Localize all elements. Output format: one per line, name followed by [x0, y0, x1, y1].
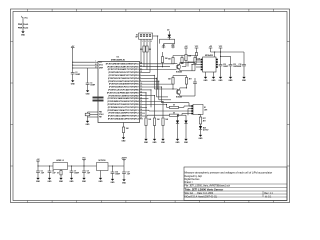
- svg-text:PWR_FLAG: PWR_FLAG: [18, 23, 29, 26]
- svg-text:(PCINT20/XCK/T0/ADC06/T0/T0)PD: (PCINT20/XCK/T0/ADC06/T0/T0)PD4: [108, 77, 139, 80]
- svg-text:100NF: 100NF: [75, 74, 80, 76]
- wire K1 pin3: [188, 108, 192, 110]
- svg-text:.1UF: .1UF: [87, 172, 90, 174]
- svg-text:21: 21: [95, 67, 97, 69]
- svg-text:C16: C16: [115, 172, 118, 174]
- svg-text:K1: K1: [204, 107, 206, 109]
- vertical resistor R15: [145, 117, 147, 119]
- svg-text:30: 30: [140, 65, 142, 67]
- svg-text:20: 20: [95, 64, 97, 66]
- svg-text:C15: C15: [238, 64, 241, 66]
- svg-text:(PCINT19/OC2B/INT1/XT/T0/T0)PD: (PCINT19/OC2B/INT1/XT/T0/T0)PD3: [109, 75, 139, 77]
- svg-text:100NF: 100NF: [90, 84, 95, 86]
- capacitor C6: [71, 165, 72, 166]
- wire VCC rail: [72, 48, 74, 73]
- resistor R19 under U2: [60, 170, 62, 171]
- svg-text:PWR_FLAG: PWR_FLAG: [18, 27, 29, 30]
- resistor R6: [172, 58, 174, 64]
- svg-text:R17: R17: [203, 118, 206, 120]
- svg-text:(PCINT9/ADC1/SDA/PTC1/T0/T0)PC: (PCINT9/ADC1/SDA/PTC1/T0/T0)PC1: [108, 109, 139, 112]
- zener D5: [200, 124, 202, 126]
- bus wires MCU lower pins: [143, 74, 154, 76]
- capacitor C7: [83, 165, 84, 166]
- svg-text:25: 25: [140, 112, 142, 114]
- diode D3: [177, 115, 179, 120]
- svg-text:C7: C7: [74, 171, 76, 173]
- svg-text:(PCINT2/SS/OC1B/INT02/T0/T0)PB: (PCINT2/SS/OC1B/INT02/T0/T0)PB2: [109, 95, 139, 97]
- svg-text:15: 15: [140, 97, 142, 99]
- capacitor C17: [123, 166, 125, 172]
- resistor R9: [172, 78, 174, 85]
- IC U3 reference: [97, 163, 109, 171]
- wire IC1 bottom: [123, 123, 125, 128]
- svg-text:C3: C3: [90, 83, 92, 85]
- wire AVCC to IC1: [73, 64, 95, 66]
- resistor R2 220: [143, 46, 145, 52]
- svg-text:.1UF: .1UF: [52, 172, 55, 174]
- title block: [184, 167, 287, 201]
- resistor R5 10K: [161, 57, 163, 63]
- svg-text:(PCINT5/SCK/TCK/ADC05/T0/T0)PB: (PCINT5/SCK/TCK/ADC05/T0/T0)PB5: [107, 103, 138, 106]
- wire K1 bottom: [198, 114, 201, 116]
- svg-text:MCP9700: MCP9700: [98, 160, 105, 162]
- IC IC1 body: [98, 62, 140, 123]
- vertical resistor R16: [153, 118, 155, 126]
- ground under C3: [87, 89, 89, 90]
- wires to bottom cluster: [157, 96, 169, 98]
- svg-text:KiCad E.D.A. kicad (2007-01-1: KiCad E.D.A. kicad (2007-01-11): [185, 195, 218, 198]
- wire ISP right: [157, 66, 158, 67]
- resistor R18 4K7: [200, 115, 202, 118]
- wire crystal to ground: [87, 117, 89, 120]
- wire crystal left: [87, 112, 89, 117]
- capacitor C5: [49, 165, 50, 166]
- svg-text:(PCINT11/ADC3/AREF/P3/T0/T0)PC: (PCINT11/ADC3/AREF/P3/T0/T0)PC3: [108, 115, 139, 118]
- resistor R10: [185, 78, 187, 85]
- svg-text:Id: 1/1: Id: 1/1: [265, 196, 272, 198]
- power flag VCC: [22, 19, 24, 31]
- rail wire: [37, 161, 39, 166]
- svg-text:Size: A4: Size: A4: [185, 192, 194, 195]
- svg-text:(PCINT21/OC0B/T1/MOSI/T0/T0)PD: (PCINT21/OC0B/T1/MOSI/T0/T0)PD5: [108, 81, 138, 83]
- svg-text:C13: C13: [233, 64, 236, 66]
- svg-text:Measure atmospheric pressure a: Measure atmospheric pressure and voltage…: [185, 170, 273, 174]
- vertical resistor R17: [162, 118, 164, 126]
- svg-text:Title: JETI LS900 Vario Sensor: Title: JETI LS900 Vario Sensor: [185, 188, 224, 192]
- capacitor C12: [220, 49, 222, 64]
- U3 ground: [100, 171, 102, 177]
- capacitor C15: [243, 52, 245, 65]
- svg-text:(PCINT1/OC1A/PWM1/AD1/T0/T0)PB: (PCINT1/OC1A/PWM1/AD1/T0/T0)PB1: [107, 91, 139, 94]
- svg-text:Drawn: /: Drawn: /: [185, 181, 194, 184]
- svg-text:(PCINT22/OC0A/AIN0/IN/T0/T0)PD: (PCINT22/OC0A/AIN0/IN/T0/T0)PD6: [109, 83, 139, 86]
- svg-text:PB7: PB7: [99, 117, 102, 119]
- svg-text:C12: C12: [223, 64, 226, 66]
- svg-text:(PCINT4/MISO/TDO/ADC4/T0/T0)PB: (PCINT4/MISO/TDO/ADC4/T0/T0)PB4: [108, 100, 139, 103]
- wire AREF cap: [87, 68, 89, 83]
- crystal Q1: [85, 113, 90, 116]
- svg-text:100NF: 100NF: [223, 66, 228, 68]
- IC U2 voltage reference: [53, 163, 68, 170]
- svg-text:17: 17: [140, 103, 142, 105]
- svg-text:23: 23: [140, 106, 142, 108]
- capacitor C4: [37, 165, 38, 166]
- wire VCC to IC1: [73, 61, 95, 63]
- svg-text:File: JETI_LS900_Vario_AVR070B: File: JETI_LS900_Vario_AVR070B/draw1.sch: [185, 185, 231, 188]
- resistor R14 1K: [148, 114, 170, 116]
- wires row2 top: [173, 75, 187, 77]
- svg-text:Date: 11.1.2002: Date: 11.1.2002: [197, 192, 214, 195]
- transistor Q2 BC846B: [176, 65, 181, 70]
- resistor R11: [185, 49, 187, 54]
- connector K3 ISP: [139, 33, 153, 39]
- svg-text:(PCINT16/RXD/USART-RX/T0/T0)PD: (PCINT16/RXD/USART-RX/T0/T0)PD0: [107, 65, 138, 68]
- capacitor C top cluster right: [194, 78, 196, 82]
- svg-text:Designed by Japl: Designed by Japl: [185, 176, 203, 178]
- capacitor C3 100NF: [86, 82, 90, 84]
- svg-text:220: 220: [149, 49, 152, 51]
- svg-text:13: 13: [140, 91, 142, 93]
- svg-text:Digital Devices: Digital Devices: [185, 178, 201, 181]
- resistor R7: [181, 58, 183, 64]
- svg-text:.1UF: .1UF: [127, 173, 130, 175]
- wire top row: [173, 55, 195, 57]
- svg-text:(PCINT8/ADC0/SCL/PTC0/T0/T0)PC: (PCINT8/ADC0/SCL/PTC0/T0/T0)PC0: [108, 106, 139, 109]
- svg-text:IC1: IC1: [117, 56, 120, 58]
- svg-text:C2: C2: [75, 72, 77, 74]
- svg-text:.1UF: .1UF: [41, 172, 44, 174]
- svg-text:11: 11: [140, 86, 142, 88]
- svg-text:27: 27: [140, 118, 142, 120]
- svg-text:C8: C8: [87, 171, 89, 173]
- IC IC2 pressure sensor: [203, 57, 217, 72]
- IC2 bottom grounds: [205, 72, 207, 76]
- wires MCU to transistors: [143, 63, 174, 65]
- svg-text:32: 32: [140, 71, 142, 73]
- svg-text:C6: C6: [52, 171, 54, 173]
- diode D4: [185, 115, 187, 120]
- capacitor C16: [112, 165, 113, 166]
- svg-text:D2: D2: [167, 30, 169, 32]
- resistor R1 under IC1: [122, 127, 124, 133]
- svg-text:12: 12: [140, 89, 142, 91]
- svg-text:ISP: ISP: [135, 37, 137, 39]
- capacitor C13: [221, 55, 231, 57]
- svg-text:(PCINT18/INT0/CKOUT/T/T0/T0)PD: (PCINT18/INT0/CKOUT/T/T0/T0)PD2: [108, 72, 138, 74]
- transistor wires row2: [154, 88, 177, 90]
- svg-text:PB6: PB6: [99, 112, 102, 114]
- svg-text:100NF: 100NF: [74, 172, 79, 174]
- svg-text:10: 10: [140, 83, 142, 85]
- wire D2 rail: [160, 38, 175, 40]
- svg-text:(PCINT12/SDA/ADC4/PT4/T0/T0)PC: (PCINT12/SDA/ADC4/PT4/T0/T0)PC4: [108, 117, 139, 120]
- ground GND top-left: [22, 30, 24, 31]
- connector K1: [193, 104, 203, 114]
- resistor R3 220: [146, 46, 148, 52]
- wire K1 pin2: [169, 110, 191, 112]
- IC1 crystal pins: [88, 111, 99, 113]
- svg-text:(PCINT0/CLKO/ICP1/AD0/T0/T0)PB: (PCINT0/CLKO/ICP1/AD0/T0/T0)PB0: [108, 88, 138, 91]
- ground under C2: [72, 79, 74, 80]
- resistor R12: [196, 49, 198, 52]
- capacitor C2 100NF: [71, 72, 75, 74]
- svg-text:BZX: BZX: [203, 128, 206, 130]
- ground under R1: [123, 136, 125, 137]
- transistor Q3 BC846B: [176, 90, 181, 95]
- wire IC2 right top: [214, 52, 216, 57]
- svg-text:(PCINT23/AIN1/ICP2/OC/T0/T0)PD: (PCINT23/AIN1/ICP2/OC/T0/T0)PD7: [109, 86, 139, 89]
- svg-text:220: 220: [140, 49, 143, 51]
- svg-text:C5: C5: [41, 171, 43, 173]
- svg-text:(PCINT17/TXD/USART-TX/T0/T0)PD: (PCINT17/TXD/USART-TX/T0/T0)PD1: [108, 68, 139, 71]
- K3 pin wires: [140, 39, 142, 64]
- wire AREF to IC1: [88, 67, 95, 69]
- svg-text:K3: K3: [136, 35, 138, 37]
- ground under crystal: [87, 120, 89, 121]
- svg-text:(PCINT3/OC2A/MOSI/AD3/T0/T0)PB: (PCINT3/OC2A/MOSI/AD3/T0/T0)PB3: [108, 97, 139, 100]
- svg-text:100NF: 100NF: [115, 173, 120, 175]
- IC1 right-side pins: [140, 63, 144, 65]
- svg-text:100NF: 100NF: [237, 66, 242, 68]
- svg-text:16: 16: [140, 100, 142, 102]
- svg-text:26: 26: [140, 115, 142, 117]
- svg-text:(PCINT10/ADC2/AIN/PT2/T0/T0)PC: (PCINT10/ADC2/AIN/PT2/T0/T0)PC2: [109, 112, 139, 115]
- svg-text:C17: C17: [127, 172, 130, 174]
- sheet border frame: [11, 9, 290, 203]
- resistor R8: [194, 58, 196, 64]
- svg-text:31: 31: [140, 68, 142, 70]
- IC1 left-side power pins: [95, 61, 99, 63]
- svg-text:LM385-1.2: LM385-1.2: [56, 160, 64, 162]
- svg-text:Rev: 1.1: Rev: 1.1: [264, 193, 273, 195]
- resistor R13 1K: [167, 106, 170, 108]
- svg-text:(PCINT14/RESET/DEBUGWIRE/T0)PC: (PCINT14/RESET/DEBUGWIRE/T0)PC6: [106, 62, 139, 65]
- transistor wires row1: [173, 63, 177, 65]
- IC2 left wires: [188, 61, 201, 63]
